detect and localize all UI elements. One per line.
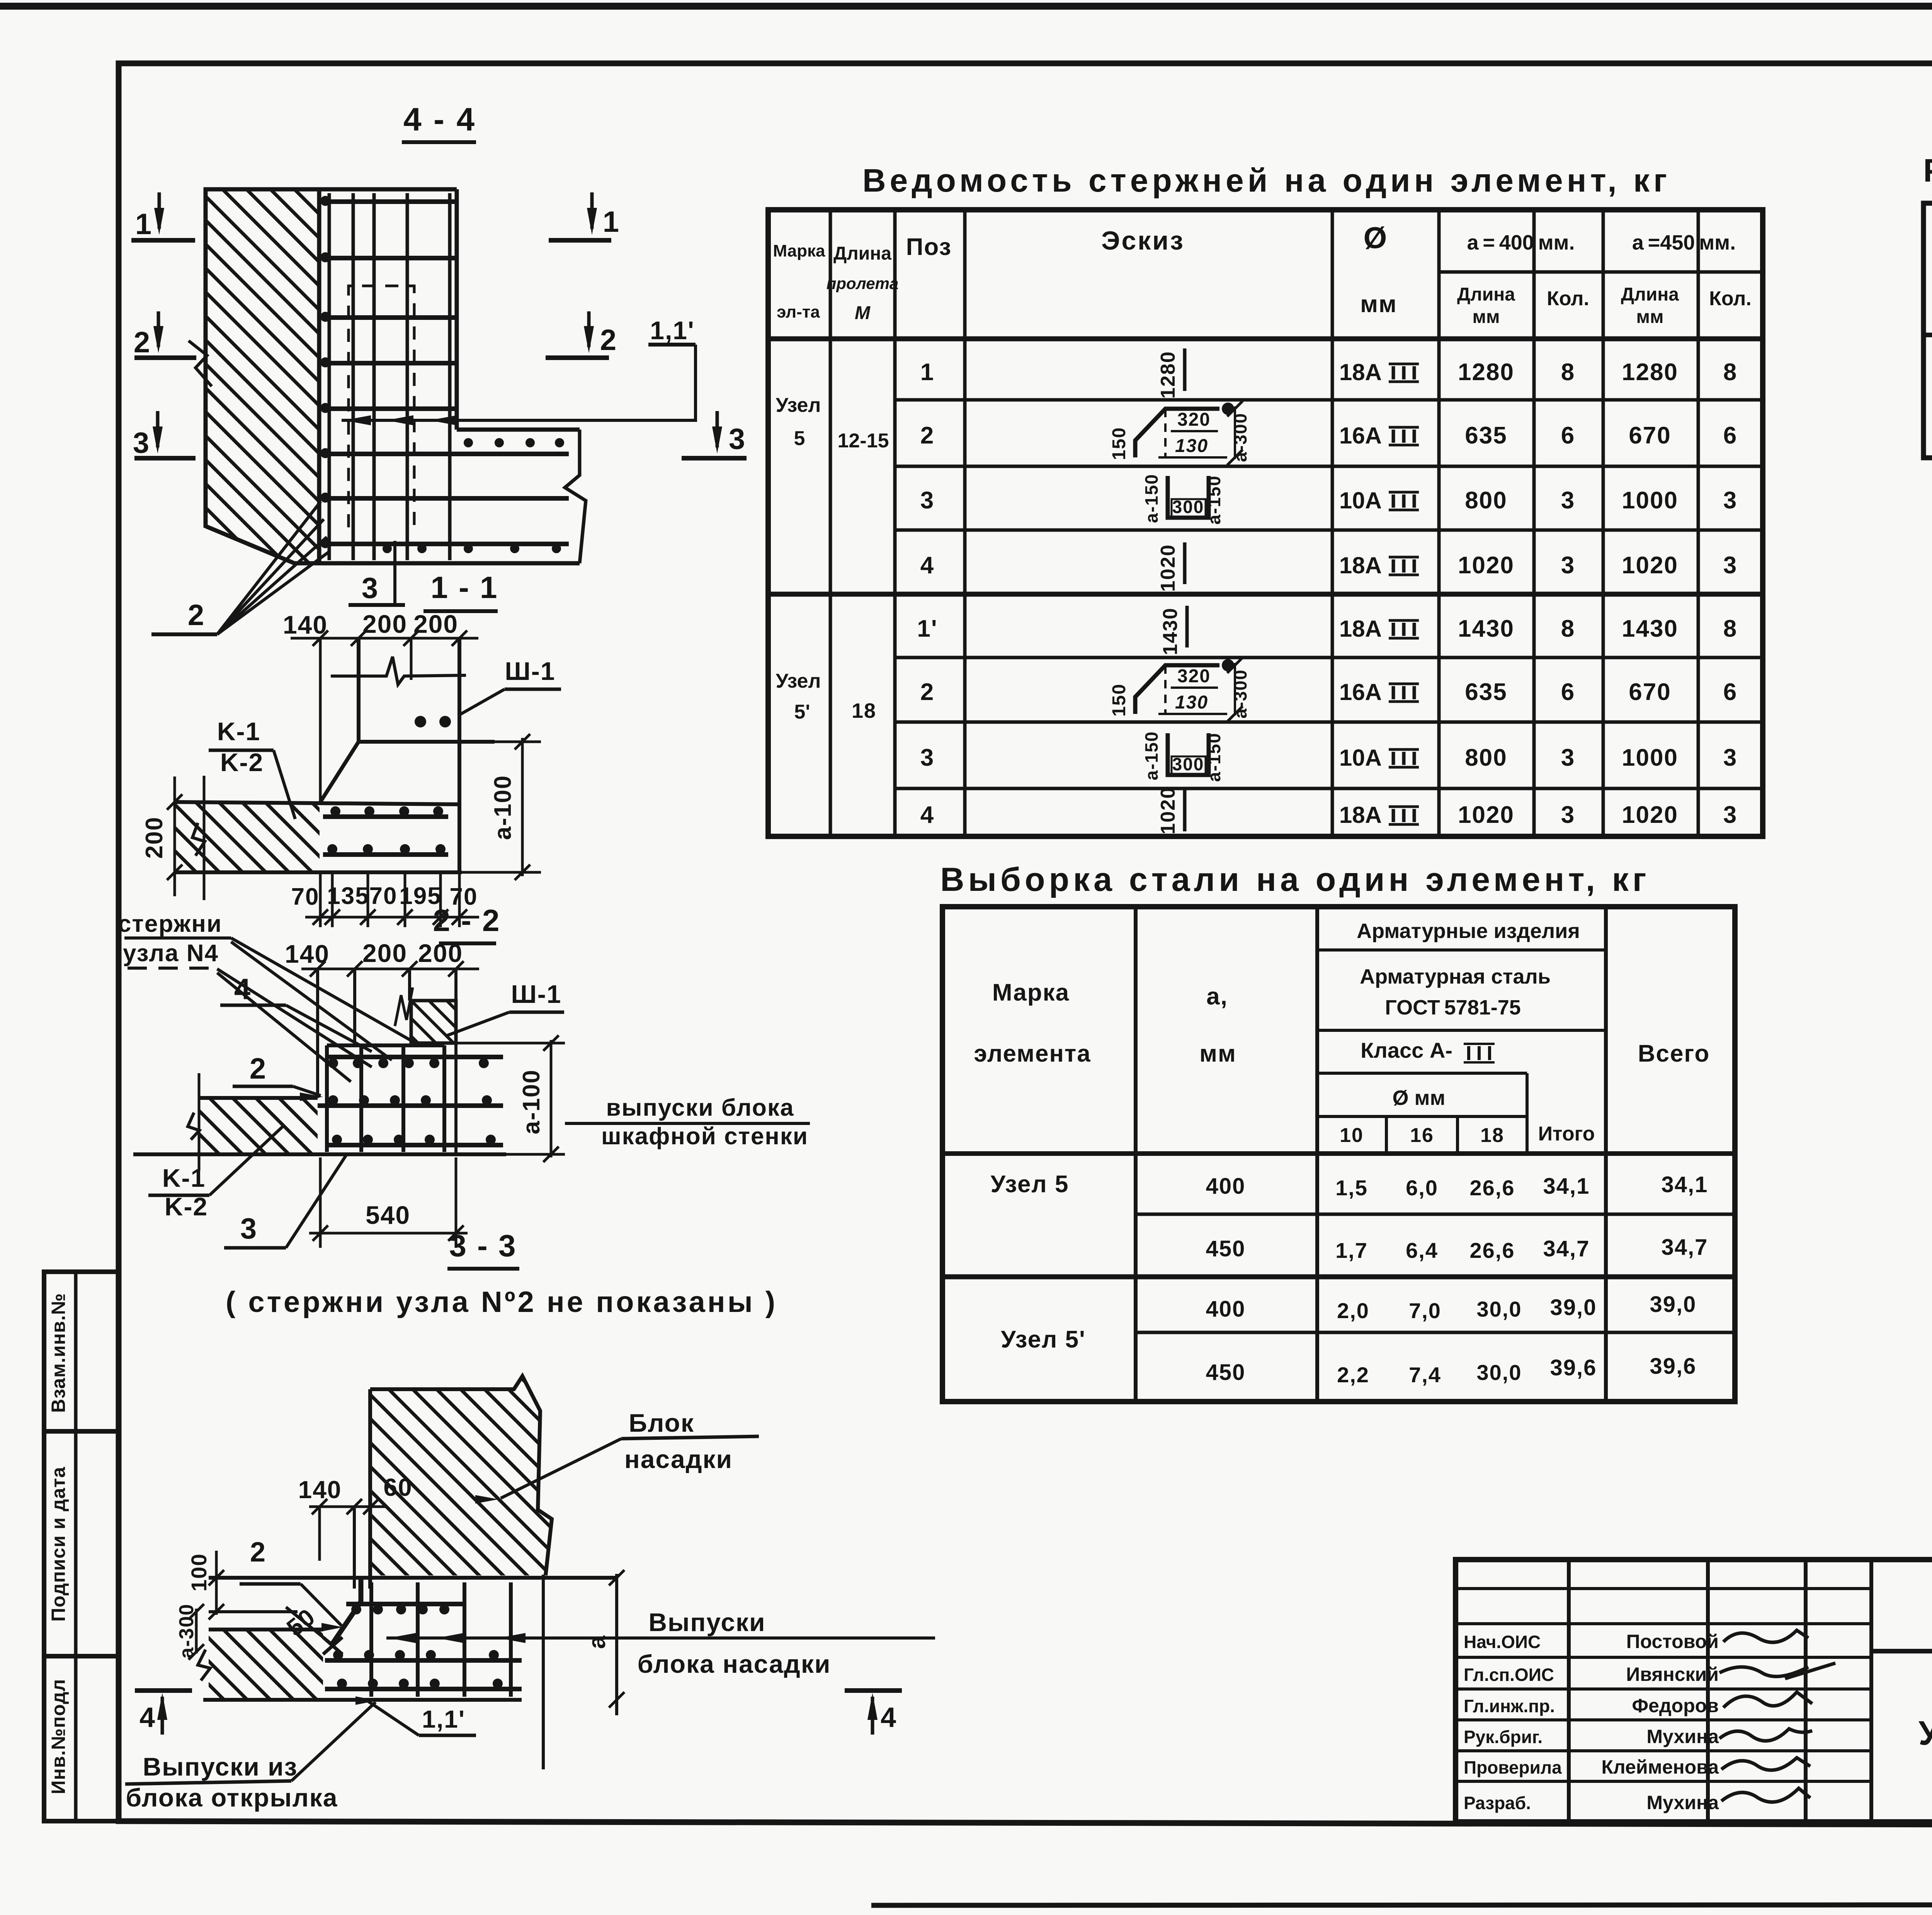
svg-text:Арматурные изделия: Арматурные изделия: [1357, 919, 1580, 943]
svg-text:18A: 18A: [1339, 802, 1382, 828]
svg-text:1280: 1280: [1157, 351, 1179, 399]
svg-text:30,0: 30,0: [1477, 1297, 1522, 1321]
svg-text:2: 2: [188, 599, 205, 632]
svg-text:135: 135: [327, 883, 369, 909]
svg-text:Кол.: Кол.: [1547, 287, 1589, 310]
svg-text:2,2: 2,2: [1337, 1363, 1369, 1387]
svg-text:3: 3: [1561, 552, 1575, 579]
svg-text:6: 6: [1723, 679, 1737, 705]
svg-text:мм: мм: [1199, 1040, 1236, 1067]
svg-text:150: 150: [1109, 427, 1129, 460]
svg-text:2 - 2: 2 - 2: [433, 903, 500, 938]
svg-text:200: 200: [362, 939, 407, 967]
dim 100 rotated: [215, 1551, 218, 1615]
svg-text:10: 10: [1340, 1124, 1364, 1147]
svg-text:Проверила: Проверила: [1464, 1757, 1562, 1777]
svg-text:Марка: Марка: [992, 979, 1070, 1006]
svg-text:Мухина: Мухина: [1646, 1792, 1719, 1813]
svg-text:a: a: [584, 1635, 611, 1649]
svg-text:2: 2: [250, 1537, 266, 1568]
svg-text:1020: 1020: [1622, 802, 1678, 828]
svg-text:Постовой: Постовой: [1626, 1631, 1719, 1652]
svg-text:1': 1': [917, 615, 937, 642]
cage bars (bottom): [346, 1602, 464, 1606]
section mark 4 left (bottom): [135, 1688, 192, 1693]
svg-text:2: 2: [600, 324, 617, 357]
svg-text:Выпуски: Выпуски: [648, 1608, 765, 1636]
svg-text:Федоров: Федоров: [1632, 1695, 1719, 1716]
svg-text:18A: 18A: [1339, 616, 1382, 642]
svg-text:200: 200: [141, 816, 168, 858]
svg-text:Арматурная сталь: Арматурная сталь: [1360, 965, 1551, 988]
svg-text:3 - 3: 3 - 3: [449, 1229, 517, 1263]
svg-text:8: 8: [1561, 359, 1575, 386]
svg-text:М: М: [855, 303, 871, 323]
svg-text:18A: 18A: [1339, 359, 1382, 385]
svg-text:3: 3: [1723, 487, 1737, 514]
dim a (bottom): [615, 1574, 618, 1715]
svg-text:400: 400: [1206, 1296, 1246, 1322]
svg-text:Ш-1: Ш-1: [511, 980, 561, 1008]
svg-text:1280: 1280: [1458, 359, 1514, 386]
svg-text:Узел 5: Узел 5: [990, 1171, 1069, 1198]
svg-text:1,5: 1,5: [1335, 1176, 1368, 1200]
svg-text:Блок: Блок: [629, 1409, 694, 1437]
svg-text:7,0: 7,0: [1409, 1298, 1441, 1323]
svg-text:1020: 1020: [1458, 552, 1514, 579]
svg-text:7,4: 7,4: [1409, 1363, 1441, 1387]
svg-text:1020: 1020: [1157, 544, 1179, 592]
svg-text:320: 320: [1177, 666, 1211, 686]
svg-text:1 - 1: 1 - 1: [430, 570, 498, 605]
svg-text:3: 3: [1723, 552, 1737, 579]
svg-text:34,1: 34,1: [1662, 1172, 1708, 1197]
svg-text:3: 3: [362, 572, 379, 605]
svg-text:элемента: элемента: [974, 1040, 1091, 1067]
table Расход frame: [1923, 203, 1932, 458]
svg-text:K-1: K-1: [217, 717, 260, 746]
slab top line A (bottom): [209, 1576, 617, 1580]
svg-text:блока открылка: блока открылка: [126, 1783, 338, 1812]
svg-text:мм: мм: [1472, 307, 1500, 327]
break zigzag top 2-2: [395, 987, 413, 1026]
svg-text:Марка: Марка: [773, 241, 825, 260]
svg-text:a,: a,: [1206, 983, 1228, 1010]
svg-text:200: 200: [362, 610, 407, 638]
svg-text:Ш-1: Ш-1: [505, 657, 555, 685]
svg-text:1430: 1430: [1622, 615, 1678, 642]
svg-text:Кол.: Кол.: [1709, 287, 1752, 310]
svg-text:4: 4: [920, 802, 934, 828]
svg-text:K-1: K-1: [162, 1164, 206, 1192]
svg-text:3: 3: [1561, 802, 1575, 828]
break zigzag slab 2-2: [188, 1113, 199, 1140]
svg-text:Клейменова: Клейменова: [1601, 1756, 1719, 1778]
svg-text:3: 3: [1561, 487, 1575, 514]
svg-text:пролета: пролета: [827, 274, 899, 292]
svg-text:2,0: 2,0: [1337, 1298, 1369, 1323]
svg-text:1000: 1000: [1622, 744, 1678, 771]
svg-text:4 - 4: 4 - 4: [403, 101, 476, 138]
svg-text:Ø: Ø: [1364, 221, 1388, 255]
svg-text:6: 6: [1723, 422, 1737, 449]
slab 2-2: [199, 1096, 318, 1100]
break line in column 1-1: [331, 657, 466, 685]
svg-text:1: 1: [603, 206, 620, 238]
svg-text:5: 5: [794, 427, 806, 450]
break zigzag slab (bottom): [198, 1650, 210, 1681]
svg-text:16A: 16A: [1339, 423, 1382, 449]
svg-text:2: 2: [250, 1052, 267, 1085]
slab rebars 1-1: [323, 814, 448, 819]
svg-text:800: 800: [1465, 487, 1507, 514]
svg-text:Выпуски из: Выпуски из: [143, 1752, 298, 1781]
svg-text:Итого: Итого: [1538, 1123, 1595, 1145]
svg-text:Гл.инж.пр.: Гл.инж.пр.: [1464, 1696, 1555, 1716]
выпуски leader line with arrows (bottom): [386, 1636, 935, 1640]
svg-text:26,6: 26,6: [1470, 1176, 1515, 1200]
svg-text:3: 3: [133, 426, 150, 459]
slab bottom 1-1: [175, 870, 462, 874]
блок насадки left edge and notch slot: [368, 1389, 372, 1589]
svg-text:Мухина: Мухина: [1646, 1726, 1719, 1747]
column outline 1-1: [357, 638, 361, 742]
svg-text:Длина: Длина: [1621, 284, 1679, 305]
line 100 level (bottom): [209, 1610, 298, 1613]
slab left hatched (bottom): [209, 1628, 323, 1631]
cage verticals (bottom): [369, 1582, 373, 1697]
svg-text:узла N4: узла N4: [123, 940, 219, 967]
svg-text:8: 8: [1723, 359, 1737, 386]
svg-text:1020: 1020: [1622, 552, 1678, 579]
svg-text:Эскиз: Эскиз: [1101, 226, 1185, 255]
svg-text:Нач.ОИС: Нач.ОИС: [1464, 1632, 1541, 1652]
svg-text:3: 3: [1723, 802, 1737, 828]
svg-text:a-150: a-150: [1204, 732, 1224, 782]
svg-text:540: 540: [366, 1201, 410, 1229]
svg-text:100: 100: [187, 1553, 211, 1591]
svg-text:16A: 16A: [1339, 679, 1382, 705]
svg-text:1000: 1000: [1622, 487, 1678, 514]
svg-text:выпуски блока: выпуски блока: [606, 1094, 794, 1121]
svg-text:6: 6: [1561, 422, 1575, 449]
svg-text:стержни: стержни: [118, 911, 222, 937]
svg-text:12-15: 12-15: [838, 430, 889, 452]
svg-text:3: 3: [729, 423, 746, 455]
svg-text:Расход бетона на один узел: Расход бетона на один узел, м³: [1923, 152, 1932, 189]
svg-text:400: 400: [1206, 1174, 1246, 1199]
svg-text:6,0: 6,0: [1406, 1176, 1438, 1200]
section mark 4 right (bottom): [845, 1688, 902, 1693]
dim a-100 (2-2): [456, 1042, 565, 1045]
svg-text:1,1': 1,1': [650, 316, 694, 345]
svg-text:130: 130: [1175, 436, 1208, 456]
vertical ext left slab 1-1: [203, 776, 206, 900]
svg-text:200: 200: [418, 939, 463, 967]
svg-text:1,7: 1,7: [1335, 1238, 1368, 1263]
svg-text:450: 450: [1206, 1236, 1246, 1261]
dim 200 vertical (1-1): [173, 777, 176, 896]
svg-text:Узлы: Узлы: [1918, 1714, 1932, 1752]
svg-text:70: 70: [291, 884, 320, 910]
svg-text:Поз: Поз: [906, 234, 952, 260]
svg-text:Узел: Узел: [776, 394, 821, 416]
svg-text:a-300: a-300: [1230, 413, 1250, 462]
svg-text:a-100: a-100: [490, 775, 516, 840]
svg-text:Взам.инв.№: Взам.инв.№: [48, 1293, 69, 1413]
extension lines 1-1: [319, 638, 322, 802]
svg-text:6,4: 6,4: [1406, 1238, 1438, 1263]
svg-text:4: 4: [139, 1702, 156, 1733]
svg-text:6: 6: [1561, 679, 1575, 705]
dim a-300 rotated: [195, 1609, 198, 1653]
svg-text:1280: 1280: [1622, 359, 1678, 386]
rebar cage 2-2: [327, 1043, 444, 1047]
svg-text:800: 800: [1465, 744, 1507, 771]
svg-text:Разраб.: Разраб.: [1464, 1793, 1531, 1813]
svg-text:34,1: 34,1: [1543, 1174, 1590, 1199]
svg-text:39,0: 39,0: [1650, 1292, 1697, 1317]
svg-text:Всего: Всего: [1638, 1040, 1710, 1067]
svg-text:4: 4: [234, 973, 251, 1006]
top edge line: [0, 3, 1932, 10]
svg-text:эл-та: эл-та: [777, 302, 820, 321]
svg-text:Длина: Длина: [833, 243, 891, 264]
title block outer: [1456, 1560, 1932, 1822]
svg-text:Рук.бриг.: Рук.бриг.: [1464, 1727, 1543, 1747]
svg-text:Узел 5': Узел 5': [1001, 1326, 1086, 1353]
svg-text:Ведомость стержней на один: Ведомость стержней на один элемент, кг: [862, 162, 1671, 199]
svg-text:1,1': 1,1': [422, 1705, 465, 1733]
svg-text:670: 670: [1629, 422, 1671, 449]
svg-text:Длина: Длина: [1457, 284, 1515, 305]
svg-text:Ø мм: Ø мм: [1393, 1086, 1446, 1110]
svg-text:a-300: a-300: [175, 1604, 198, 1659]
svg-text:18A: 18A: [1339, 552, 1382, 578]
leader fan стержни: [231, 938, 420, 1045]
dashed hidden contour 4-4: [349, 286, 414, 527]
svg-text:1430: 1430: [1458, 615, 1514, 642]
svg-text:200: 200: [413, 610, 458, 638]
svg-text:1: 1: [135, 208, 152, 241]
svg-text:18: 18: [852, 699, 876, 722]
svg-text:ГОСТ 5781-75: ГОСТ 5781-75: [1385, 996, 1521, 1019]
rebar zone outline 4-4: [319, 187, 457, 192]
svg-text:2: 2: [920, 422, 934, 449]
svg-text:8: 8: [1723, 615, 1737, 642]
svg-text:3: 3: [240, 1212, 257, 1245]
svg-text:3: 3: [920, 487, 934, 514]
svg-text:Выборка стали на один элем: Выборка стали на один элемент, кг: [940, 861, 1650, 898]
svg-text:140: 140: [283, 610, 328, 639]
svg-text:5': 5': [794, 701, 810, 723]
svg-text:8: 8: [1561, 615, 1575, 642]
svg-text:Класс А-: Класс А-: [1361, 1038, 1452, 1062]
signatures: [1723, 1630, 1808, 1642]
svg-text:насадки: насадки: [624, 1445, 733, 1473]
table Ведомость frame: [768, 210, 1763, 836]
svg-text:34,7: 34,7: [1543, 1236, 1590, 1261]
svg-text:Гл.сп.ОИС: Гл.сп.ОИС: [1464, 1665, 1554, 1685]
svg-text:30,0: 30,0: [1477, 1360, 1522, 1385]
svg-text:a = 400 мм.: a = 400 мм.: [1467, 231, 1575, 254]
svg-text:K-2: K-2: [220, 748, 264, 777]
svg-text:a-150: a-150: [1204, 475, 1224, 525]
svg-text:3: 3: [1561, 744, 1575, 771]
svg-text:16: 16: [1410, 1124, 1434, 1147]
svg-text:a-150: a-150: [1141, 731, 1162, 780]
svg-text:шкафной стенки: шкафной стенки: [601, 1123, 808, 1150]
dim a-100 (1-1): [495, 741, 541, 743]
svg-text:1020: 1020: [1157, 787, 1179, 834]
svg-text:320: 320: [1177, 410, 1211, 430]
svg-text:2: 2: [920, 679, 934, 705]
svg-text:Подписи и дата: Подписи и дата: [48, 1466, 69, 1622]
svg-text:635: 635: [1465, 679, 1507, 705]
dots in column 1-1: [415, 716, 426, 727]
slab rebar dots 4-4: [464, 438, 473, 447]
svg-text:26,6: 26,6: [1470, 1238, 1515, 1263]
bottom dims 70 135 70 195 70 (1-1): [319, 872, 322, 927]
svg-text:мм: мм: [1636, 307, 1663, 327]
svg-text:Узел: Узел: [776, 670, 821, 692]
svg-text:635: 635: [1465, 422, 1507, 449]
vertical rebars 4-4: [328, 193, 331, 560]
svg-text:1: 1: [920, 359, 934, 386]
left margin strip: [44, 1272, 119, 1821]
svg-text:мм: мм: [1360, 291, 1397, 318]
svg-text:450: 450: [1206, 1360, 1246, 1385]
horizontal rebars 4-4: [321, 199, 455, 204]
svg-text:10A: 10A: [1339, 745, 1382, 771]
big designation 3.503-23.09 - 305: [1871, 1649, 1932, 1653]
haunch 1-1: [359, 740, 495, 744]
ext lines 2-2: [316, 969, 319, 1098]
svg-text:39,6: 39,6: [1650, 1354, 1697, 1379]
svg-text:2: 2: [134, 326, 151, 359]
svg-text:70: 70: [369, 883, 398, 909]
svg-text:60: 60: [383, 1473, 412, 1501]
svg-text:K-2: K-2: [165, 1192, 208, 1221]
svg-text:39,0: 39,0: [1550, 1295, 1597, 1320]
svg-text:140: 140: [298, 1476, 342, 1504]
slab break zigzag 1-1: [192, 823, 205, 856]
svg-text:Инв.№подл: Инв.№подл: [48, 1679, 69, 1794]
svg-text:150: 150: [1109, 683, 1129, 717]
svg-text:1020: 1020: [1458, 802, 1514, 828]
table Выборка frame: [942, 907, 1735, 1402]
svg-text:18: 18: [1480, 1124, 1504, 1147]
cut trace line (bottom): [542, 1575, 545, 1769]
svg-text:Ивянский: Ивянский: [1626, 1664, 1719, 1685]
svg-text:39,6: 39,6: [1550, 1355, 1597, 1380]
slab top 1-1: [175, 802, 459, 804]
svg-text:34,7: 34,7: [1662, 1235, 1708, 1260]
svg-text:670: 670: [1629, 679, 1671, 705]
svg-text:( стержни узла Nº2 не пока: ( стержни узла Nº2 не показаны ): [226, 1286, 777, 1319]
svg-text:a =450 мм.: a =450 мм.: [1632, 231, 1736, 254]
svg-text:a-300: a-300: [1230, 669, 1250, 719]
bent bar (bottom): [332, 1579, 361, 1645]
svg-text:3: 3: [920, 744, 934, 771]
svg-text:10A: 10A: [1339, 488, 1382, 513]
svg-text:блока насадки: блока насадки: [638, 1650, 831, 1678]
wall break zigzag 4-4: [189, 341, 212, 386]
svg-text:130: 130: [1175, 692, 1208, 713]
svg-text:a-100: a-100: [518, 1069, 545, 1135]
svg-text:1430: 1430: [1159, 607, 1182, 655]
svg-text:3: 3: [1723, 744, 1737, 771]
bottom copy line: [871, 1905, 1932, 1905]
svg-text:4: 4: [920, 552, 934, 579]
svg-text:a-150: a-150: [1141, 474, 1162, 523]
slab break mark right 4-4: [565, 430, 586, 563]
svg-text:4: 4: [881, 1702, 897, 1733]
